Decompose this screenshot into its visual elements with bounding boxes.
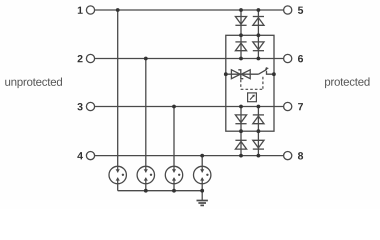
pin label 4 bbox=[77, 152, 83, 159]
surge arrester F3 bbox=[165, 166, 182, 183]
wire vertical from line 3 to arrester F3 bbox=[173, 107, 175, 167]
protection module box bbox=[226, 35, 274, 131]
junction bus/ground bbox=[200, 189, 204, 193]
junction suppressor branch/box left edge bbox=[224, 72, 228, 76]
status indicator bbox=[248, 93, 257, 102]
wire diode branch left lower (line 7 to line 8) bbox=[240, 107, 242, 156]
pin label 7 bbox=[298, 103, 303, 110]
wire line 2 (terminal 2 to terminal 6) bbox=[95, 58, 284, 60]
terminal 8 bbox=[284, 152, 292, 160]
junction line1/v1 bbox=[116, 8, 120, 12]
terminal 3 bbox=[86, 102, 94, 110]
junction line4/v4 bbox=[200, 154, 204, 158]
terminal 1 bbox=[86, 6, 94, 14]
dashed mechanical linkage bbox=[241, 77, 263, 90]
label protected bbox=[325, 80, 330, 89]
ground bbox=[197, 201, 208, 206]
wire ground stem bbox=[201, 191, 203, 201]
diode D7 (points up) bbox=[235, 140, 246, 149]
diode D4 (points down) bbox=[253, 42, 264, 51]
pin label 3 bbox=[77, 103, 82, 110]
pin label 6 bbox=[298, 55, 303, 62]
junction switch/box right edge bbox=[272, 72, 276, 76]
junction line7/right branch bbox=[257, 105, 261, 109]
terminal 6 bbox=[284, 54, 292, 62]
terminal 2 bbox=[86, 54, 94, 62]
junction line6/left branch bbox=[239, 57, 243, 61]
wire arrester F1 drop to ground bus bbox=[117, 184, 119, 191]
junction line5/left branch bbox=[239, 8, 243, 12]
pin label 5 bbox=[298, 7, 303, 14]
junction box bottom/right branch bbox=[257, 129, 261, 133]
junction line2/v2 bbox=[144, 57, 148, 61]
junction box bottom/left branch bbox=[239, 129, 243, 133]
junction box top/left branch bbox=[239, 33, 243, 37]
wire arrester F2 drop to ground bus bbox=[145, 184, 147, 191]
wire arrester F4 drop to ground bus bbox=[201, 184, 203, 191]
diode D5 (points down) bbox=[235, 115, 246, 124]
pin label 2 bbox=[78, 55, 83, 62]
junction line8/right branch bbox=[257, 154, 261, 158]
thermal disconnect switch bbox=[259, 67, 274, 74]
wire vertical from line 1 to arrester F1 bbox=[117, 10, 119, 166]
wire line 4 (terminal 4 to terminal 8) bbox=[95, 155, 284, 157]
junction bus/F2 bbox=[144, 189, 148, 193]
terminal 5 bbox=[284, 6, 292, 14]
surge arrester F2 bbox=[137, 166, 154, 183]
junction box top/right branch bbox=[257, 33, 261, 37]
diode D3 (points up) bbox=[235, 42, 246, 51]
surge arrester F4 bbox=[194, 166, 211, 183]
wire diode branch right lower (line 7 to line 8) bbox=[257, 107, 259, 156]
junction line5/right branch bbox=[257, 8, 261, 12]
terminal 7 bbox=[284, 102, 292, 110]
diode D1 (points down) bbox=[235, 17, 246, 26]
wire vertical from line 4 to arrester F4 bbox=[201, 156, 203, 167]
wire suppressor branch bbox=[226, 73, 259, 75]
junction line7/left branch bbox=[239, 105, 243, 109]
pin label 1 bbox=[78, 7, 83, 14]
junction line3/v3 bbox=[172, 105, 176, 109]
diode D6 (points up) bbox=[253, 115, 264, 124]
diode D8 (points down) bbox=[253, 140, 264, 149]
junction line8/left branch bbox=[239, 154, 243, 158]
diode D2 (points up) bbox=[253, 17, 264, 26]
junction bus/F3 bbox=[172, 189, 176, 193]
label unprotected bbox=[5, 80, 10, 86]
junction line6/right branch bbox=[257, 57, 261, 61]
wire line 3 (terminal 3 to terminal 7) bbox=[95, 106, 284, 108]
surge arrester F1 bbox=[109, 166, 126, 183]
wire diode branch right upper (line 5 to line 6) bbox=[257, 10, 259, 59]
wire diode branch left upper (line 5 to line 6) bbox=[240, 10, 242, 59]
wire vertical from line 2 to arrester F2 bbox=[145, 59, 147, 167]
terminal 4 bbox=[86, 152, 94, 160]
pin label 8 bbox=[298, 152, 303, 159]
wire ground bus bbox=[118, 190, 203, 192]
wire line 1 (terminal 1 to terminal 5) bbox=[95, 9, 284, 11]
wire arrester F3 drop to ground bus bbox=[173, 184, 175, 191]
suppressor diode (bidirectional TVS) bbox=[231, 70, 250, 79]
